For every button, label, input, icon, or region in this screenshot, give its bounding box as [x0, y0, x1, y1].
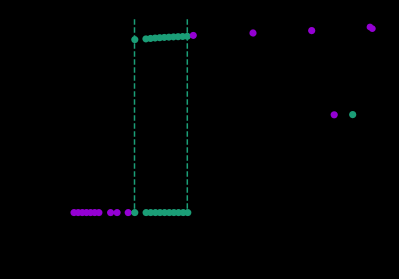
- top row: purple dot 3: [308, 27, 315, 34]
- bottom row: purple pair: [107, 209, 121, 216]
- top row: lone green dot on line 1: [131, 36, 138, 43]
- dashed event line 2: [186, 19, 188, 216]
- bottom row: purple single: [125, 209, 132, 216]
- legend marker purple: [331, 111, 338, 118]
- bottom row: green cluster: [143, 209, 192, 216]
- top row: purple dot after line 2: [190, 32, 197, 39]
- top row: purple dot 2: [249, 29, 256, 36]
- top row: green cluster: [142, 33, 191, 43]
- top row: purple pair: [367, 24, 376, 32]
- dashed event line 1: [134, 19, 136, 216]
- bottom row: purple cluster: [70, 209, 102, 216]
- bottom row: green dot on line 1: [131, 209, 138, 216]
- legend marker green: [349, 111, 356, 118]
